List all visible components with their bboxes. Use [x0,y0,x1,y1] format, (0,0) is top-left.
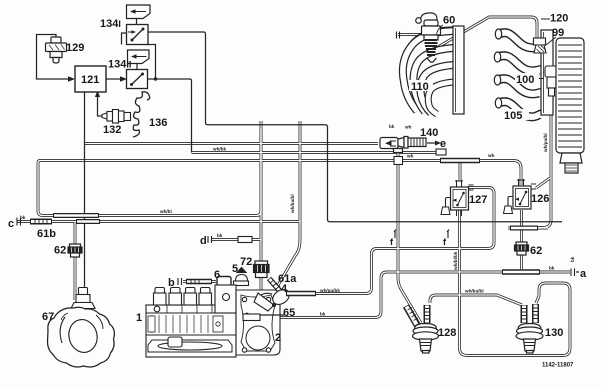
svg-text:a: a [580,268,587,280]
switchover valve 134I [127,25,149,45]
leader dash 100 [538,78,545,80]
wire 134I out long run to right [148,32,562,222]
svg-text:6: 6 [214,269,220,281]
svg-text:1142-11807: 1142-11807 [542,363,574,369]
svg-text:wh/pu/bl: wh/pu/bl [543,133,548,153]
svg-text:1: 1 [136,312,142,324]
svg-text:62: 62 [530,245,542,257]
svg-text:134I: 134I [100,18,121,30]
svg-text:f: f [390,237,394,247]
svg-text:wh/pu/bk: wh/pu/bk [319,288,340,293]
fitting 99 [534,38,547,53]
sleeve on 140 drop at y160 [394,157,403,165]
wire 121 to 134II [106,78,124,80]
relay flag 134II lower [128,50,150,70]
sleeve on b line [186,279,212,285]
wire 132 to 121 [98,96,103,116]
svg-text:126: 126 [531,193,549,205]
node dot 134 junction [154,77,157,80]
leader 60 [437,25,444,35]
check valve 140 [380,137,426,153]
svg-text:105: 105 [504,110,522,122]
label backings [409,73,539,120]
svg-text:wh: wh [404,125,412,130]
sleeve on loop bottom line [53,213,99,218]
svg-text:62: 62 [54,245,66,257]
hose squiggle 136 [133,92,150,137]
solenoid valve 127 [441,180,474,216]
wire box1 bottom jog [146,45,156,79]
svg-text:134II: 134II [108,59,131,71]
port 6 fitting [217,277,231,286]
sleeve tee at 460 on y160 [440,158,480,164]
svg-text:100: 100 [516,74,534,86]
arrow to e [427,142,436,144]
sleeve on d line [238,237,252,243]
svg-text:wh/bl/bk: wh/bl/bk [453,251,458,271]
glow plug 132 [102,110,131,124]
svg-text:120: 120 [550,13,568,25]
sleeve on bk line at lever [243,314,260,321]
primer pump [168,337,182,347]
svg-text:5: 5 [232,263,238,275]
svg-text:128: 128 [438,327,456,339]
svg-text:wh/bk: wh/bk [212,147,226,152]
svg-text:4: 4 [281,283,288,295]
svg-text:wh: wh [406,154,414,159]
governor housing 2 [236,290,280,355]
svg-text:110: 110 [411,81,429,93]
wire 134II out down to y152 [148,79,192,153]
f tick marks [394,230,396,239]
valve 5 dome [234,268,249,286]
lever cluster 4 / 61a / 65 [245,279,292,317]
relay flag 134I upper [127,5,151,25]
leader 99 [546,37,556,45]
valve 100 [545,66,558,96]
svg-text:129: 129 [66,42,84,54]
vacuum pump 67 [48,288,115,368]
open end ticks at 60 stub [397,32,400,39]
thin lines [37,32,563,298]
svg-text:72: 72 [240,256,252,268]
leader dash 120 [541,18,550,20]
svg-text:bk: bk [570,256,575,262]
intake manifold 110 [403,26,464,114]
tee sleeve on c line [76,219,100,224]
svg-text:wh/bl: wh/bl [159,209,172,214]
svg-text:99: 99 [552,27,564,39]
svg-text:67: 67 [42,311,54,323]
svg-text:b: b [168,277,175,289]
tee sleeve on a-line [502,269,540,275]
control unit 121 [75,66,106,92]
svg-text:60: 60 [443,15,455,27]
thermo valve 130 [516,304,543,353]
svg-text:e: e [440,138,446,150]
coupling 72 [254,261,270,278]
vacuum reservoir column [556,38,584,173]
end ticks + arrow a [571,269,575,277]
svg-text:wh/bu/bl: wh/bu/bl [464,289,484,294]
svg-text:65: 65 [283,307,295,319]
svg-text:140: 140 [420,127,438,139]
wire 129 to 121 [37,35,69,80]
wire box1 left stub [122,33,127,45]
svg-text:wh: wh [487,153,495,158]
coupling 61b [30,219,52,225]
sleeve lever to 127-line [286,291,316,297]
arrowheads [68,76,127,97]
solenoid valve 126 [504,179,537,214]
switchover valve 134II [127,70,148,89]
connector b open end [178,278,182,285]
svg-text:bk: bk [20,215,26,220]
svg-text:132: 132 [103,124,121,136]
svg-text:2: 2 [275,332,281,344]
svg-text:130: 130 [545,327,563,339]
injection pump assembly 1 [146,285,236,357]
small color-code labels [20,124,575,317]
front housing with port 6 [215,285,236,313]
wire 121 bottom to pump 67 [84,92,86,298]
svg-text:bk: bk [389,124,395,129]
shutoff valve 60 [416,13,441,62]
svg-text:f: f [443,237,447,247]
svg-text:bk: bk [320,312,326,317]
coupling 62 right [515,242,529,255]
svg-text:wh/bu/bl: wh/bu/bl [290,194,295,214]
intake manifold 105 [494,29,553,117]
connector d open end [208,236,212,243]
svg-text:136: 136 [149,117,167,129]
svg-text:c: c [8,218,14,230]
cross sleeve under 126 [510,226,538,231]
svg-text:121: 121 [81,74,99,86]
svg-text:bk: bk [217,233,223,238]
injector barrels [154,288,212,306]
coupling 62 left [68,244,82,257]
svg-text:127: 127 [469,194,487,206]
inspection cover [148,340,232,352]
svg-text:61b: 61b [37,228,56,240]
sensor 129 [46,37,67,63]
thermo valve 128 [406,305,439,353]
connector c open end [17,218,21,226]
svg-text:bk: bk [549,266,555,271]
end sleeve on y152 line [436,149,446,155]
svg-text:d: d [200,235,207,247]
